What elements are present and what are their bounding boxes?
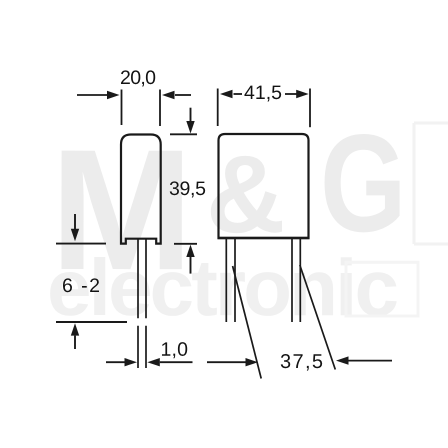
leader line right lead (300, 265, 336, 370)
dim 6-2 top arrow (74, 214, 76, 229)
svg-text:1,0: 1,0 (160, 339, 188, 361)
dim 20,0 left extension line (121, 90, 123, 126)
dim 41,5 right arrow (285, 93, 297, 95)
lead side view (138, 239, 146, 368)
right lead front view (292, 238, 300, 322)
dim 1,0 right arrow (147, 358, 160, 366)
dim 6-2 top tick (56, 243, 106, 245)
svg-text:6 -2: 6 -2 (62, 275, 100, 297)
dim 39,5 bottom arrow (186, 245, 194, 257)
svg-text:37,5: 37,5 (280, 351, 323, 373)
dim 6-2 bottom arrow (71, 323, 79, 335)
dim 37,5 left arrow (207, 361, 246, 363)
dim 41,5 left extension line (217, 89, 219, 127)
dim 6-2 bottom tick (56, 321, 127, 323)
dim 20,0 left arrow (77, 94, 107, 96)
dim 37,5 right arrow (336, 356, 349, 364)
watermark box around G (414, 123, 448, 244)
dim 41,5 left arrow (220, 90, 233, 98)
svg-text:20,0: 20,0 (120, 67, 156, 89)
dim 41,5 right extension line (309, 89, 311, 128)
left lead front view (226, 238, 235, 322)
box bottom edge (218, 237, 310, 240)
dim 20,0 right arrow (175, 94, 191, 96)
dim 39,5 top tick (170, 133, 197, 135)
svg-text:41,5: 41,5 (244, 82, 282, 104)
dim 39,5 bottom tick (174, 243, 197, 245)
capacitor body front view (219, 134, 309, 238)
dim 1,0 left arrow (106, 361, 125, 363)
dim 20,0 right extension line (159, 90, 161, 127)
watermark box around ic (346, 262, 418, 316)
leader line left lead (233, 266, 262, 379)
svg-text:G: G (320, 105, 406, 261)
dim 39,5 top arrow (190, 108, 192, 121)
svg-text:39,5: 39,5 (169, 178, 206, 200)
capacitor body side view (121, 135, 161, 244)
